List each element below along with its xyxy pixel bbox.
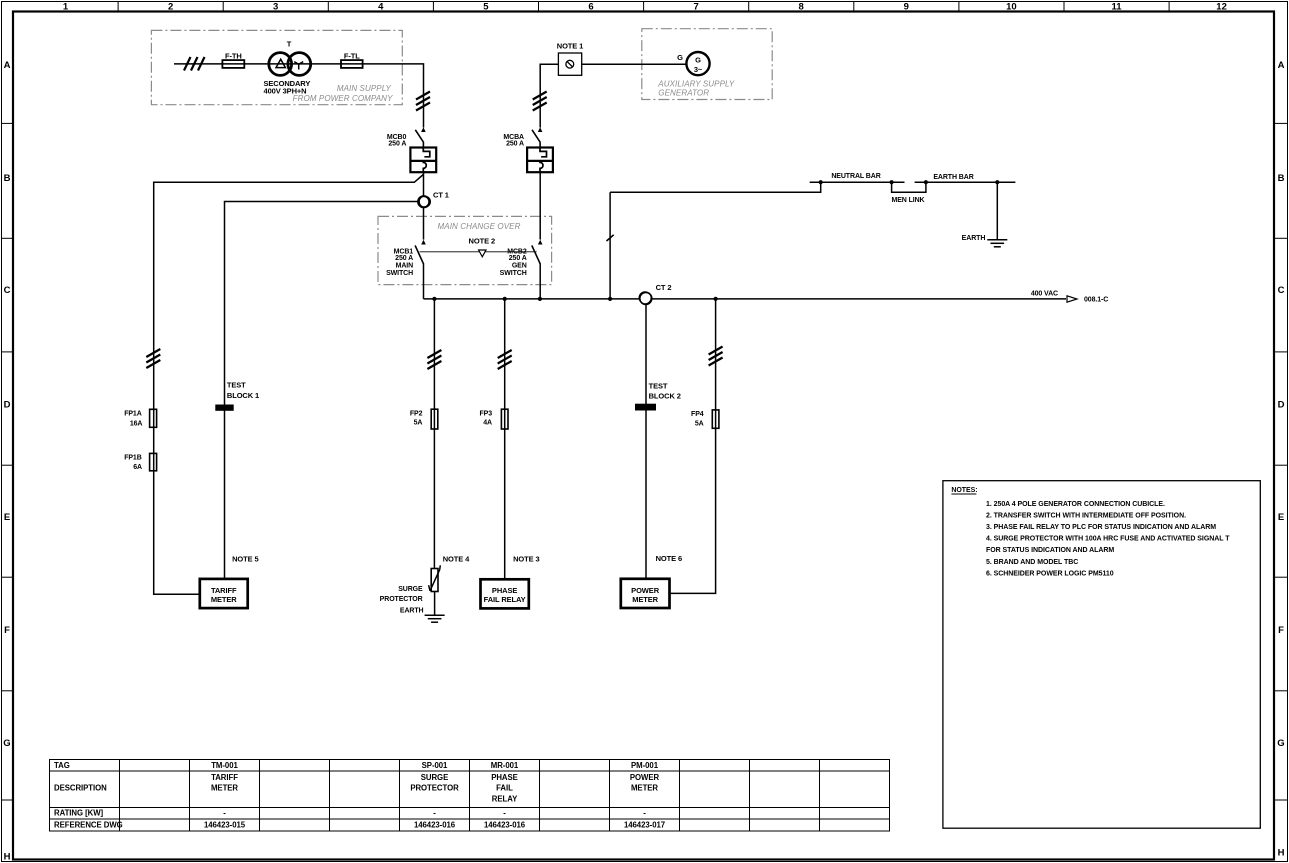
svg-text:FP1A: FP1A: [124, 411, 142, 418]
svg-text:2. TRANSFER SWITCH WITH INTERM: 2. TRANSFER SWITCH WITH INTERMEDIATE OFF…: [986, 512, 1186, 519]
svg-text:9: 9: [904, 2, 909, 13]
svg-text:TM-001: TM-001: [211, 761, 238, 770]
svg-text:PHASE: PHASE: [492, 586, 517, 595]
svg-text:FP3: FP3: [479, 411, 492, 418]
svg-text:C: C: [1278, 285, 1285, 296]
svg-text:G: G: [3, 738, 10, 749]
svg-text:4A: 4A: [483, 420, 492, 427]
svg-text:TARIFF: TARIFF: [211, 773, 238, 782]
svg-text:PROTECTOR: PROTECTOR: [380, 596, 423, 603]
svg-text:1. 250A 4 POLE GENERATOR CONNE: 1. 250A 4 POLE GENERATOR CONNECTION CUBI…: [986, 501, 1165, 508]
svg-text:-: -: [643, 809, 646, 818]
svg-text:12: 12: [1216, 2, 1227, 13]
svg-text:TEST: TEST: [227, 380, 246, 389]
svg-text:3. PHASE FAIL RELAY TO PLC FOR: 3. PHASE FAIL RELAY TO PLC FOR STATUS IN…: [986, 524, 1216, 531]
svg-text:250 A: 250 A: [395, 255, 413, 262]
svg-text:SWITCH: SWITCH: [386, 270, 413, 277]
svg-text:EARTH: EARTH: [400, 607, 424, 614]
svg-text:3: 3: [273, 2, 278, 13]
svg-text:F-TH: F-TH: [225, 51, 242, 60]
svg-text:G: G: [695, 56, 701, 65]
svg-text:G: G: [677, 53, 683, 62]
svg-text:3~: 3~: [694, 65, 703, 74]
svg-text:DESCRIPTION: DESCRIPTION: [54, 783, 107, 792]
svg-text:-: -: [223, 809, 226, 818]
svg-text:MR-001: MR-001: [491, 761, 519, 770]
svg-text:AUXILIARY SUPPLY: AUXILIARY SUPPLY: [657, 80, 735, 89]
svg-text:FP2: FP2: [410, 411, 423, 418]
svg-text:POWER: POWER: [631, 586, 660, 595]
svg-text:BLOCK 2: BLOCK 2: [649, 392, 681, 401]
svg-text:F-TL: F-TL: [344, 51, 360, 60]
svg-text:B: B: [4, 173, 11, 184]
svg-text:PROTECTOR: PROTECTOR: [410, 784, 459, 793]
svg-text:FROM POWER COMPANY: FROM POWER COMPANY: [293, 94, 393, 103]
svg-text:5. BRAND AND MODEL TBC: 5. BRAND AND MODEL TBC: [986, 559, 1078, 566]
svg-text:146423-015: 146423-015: [204, 821, 246, 830]
svg-text:METER: METER: [631, 784, 658, 793]
svg-text:METER: METER: [211, 784, 238, 793]
svg-text:METER: METER: [632, 595, 658, 604]
svg-text:250 A: 250 A: [509, 255, 527, 262]
svg-text:NOTE 2: NOTE 2: [469, 237, 496, 246]
svg-text:POWER: POWER: [630, 773, 660, 782]
svg-text:D: D: [4, 400, 11, 411]
svg-text:H: H: [4, 852, 11, 863]
svg-text:MAIN CHANGE OVER: MAIN CHANGE OVER: [438, 222, 521, 231]
svg-text:PHASE: PHASE: [491, 773, 518, 782]
svg-text:5: 5: [483, 2, 489, 13]
svg-text:MEN LINK: MEN LINK: [891, 197, 924, 204]
svg-text:NOTE 6: NOTE 6: [656, 554, 683, 563]
svg-text:MAIN SUPPLY: MAIN SUPPLY: [337, 84, 392, 93]
svg-text:NOTE 5: NOTE 5: [232, 555, 259, 564]
svg-text:8: 8: [799, 2, 804, 13]
svg-text:BLOCK 1: BLOCK 1: [227, 391, 259, 400]
svg-text:SWITCH: SWITCH: [500, 270, 527, 277]
svg-text:GENERATOR: GENERATOR: [658, 89, 709, 98]
svg-text:SURGE: SURGE: [398, 586, 423, 593]
svg-text:6: 6: [588, 2, 593, 13]
svg-text:400V 3PH+N: 400V 3PH+N: [264, 87, 307, 96]
svg-text:NOTE 4: NOTE 4: [443, 555, 470, 564]
svg-text:GEN: GEN: [512, 263, 527, 270]
svg-text:SP-001: SP-001: [422, 761, 448, 770]
svg-text:TEST: TEST: [649, 381, 668, 390]
svg-text:PM-001: PM-001: [631, 761, 659, 770]
svg-text:2: 2: [168, 2, 173, 13]
svg-text:EARTH BAR: EARTH BAR: [933, 174, 973, 181]
svg-text:7: 7: [693, 2, 698, 13]
svg-text:G: G: [1277, 738, 1284, 749]
svg-text:FP4: FP4: [691, 411, 704, 418]
svg-text:A: A: [1278, 60, 1285, 71]
svg-text:MAIN: MAIN: [396, 263, 414, 270]
svg-text:4. SURGE PROTECTOR WITH 100A H: 4. SURGE PROTECTOR WITH 100A HRC FUSE AN…: [986, 536, 1230, 543]
svg-text:6A: 6A: [133, 464, 142, 471]
svg-text:F: F: [4, 625, 10, 636]
svg-text:FOR STATUS INDICATION AND ALAR: FOR STATUS INDICATION AND ALARM: [986, 547, 1114, 554]
svg-text:C: C: [4, 285, 11, 296]
svg-text:16A: 16A: [130, 421, 143, 428]
svg-text:RELAY: RELAY: [492, 795, 518, 804]
svg-text:METER: METER: [211, 595, 237, 604]
svg-text:6. SCHNEIDER POWER LOGIC PM511: 6. SCHNEIDER POWER LOGIC PM5110: [986, 570, 1114, 577]
svg-text:146423-017: 146423-017: [624, 821, 665, 830]
svg-text:-: -: [503, 809, 506, 818]
svg-text:TARIFF: TARIFF: [211, 586, 237, 595]
svg-text:CT 2: CT 2: [656, 283, 672, 292]
svg-text:TAG: TAG: [54, 761, 70, 770]
svg-text:146423-016: 146423-016: [414, 821, 456, 830]
svg-text:D: D: [1278, 400, 1285, 411]
svg-text:T: T: [287, 40, 292, 49]
svg-text:1: 1: [63, 2, 69, 13]
svg-text:5A: 5A: [695, 421, 704, 428]
svg-text:NEUTRAL BAR: NEUTRAL BAR: [831, 173, 880, 180]
svg-text:146423-016: 146423-016: [484, 821, 526, 830]
svg-text:FAIL RELAY: FAIL RELAY: [484, 595, 526, 604]
svg-text:11: 11: [1111, 2, 1122, 13]
svg-text:4: 4: [378, 2, 384, 13]
svg-text:FP1B: FP1B: [124, 454, 142, 461]
svg-text:008.1-C: 008.1-C: [1084, 296, 1108, 303]
svg-text:NOTES:: NOTES:: [951, 487, 977, 494]
svg-text:FAIL: FAIL: [496, 784, 513, 793]
svg-text:NOTE 1: NOTE 1: [557, 42, 584, 51]
svg-text:SURGE: SURGE: [421, 773, 448, 782]
svg-text:-: -: [433, 809, 436, 818]
svg-text:H: H: [1278, 848, 1285, 859]
svg-text:250 A: 250 A: [506, 141, 524, 148]
svg-text:EARTH: EARTH: [962, 235, 986, 242]
svg-text:CT 1: CT 1: [433, 191, 449, 200]
svg-text:10: 10: [1006, 2, 1017, 13]
svg-text:250 A: 250 A: [388, 141, 406, 148]
svg-text:B: B: [1278, 173, 1285, 184]
svg-text:5A: 5A: [414, 420, 423, 427]
svg-text:E: E: [4, 512, 10, 523]
svg-text:400 VAC: 400 VAC: [1031, 291, 1058, 298]
svg-text:A: A: [4, 60, 11, 71]
svg-text:NOTE 3: NOTE 3: [513, 555, 540, 564]
svg-text:E: E: [1278, 512, 1284, 523]
svg-text:RATING [KW]: RATING [KW]: [54, 809, 104, 818]
svg-text:REFERENCE DWG: REFERENCE DWG: [54, 821, 123, 830]
svg-text:F: F: [1278, 625, 1284, 636]
